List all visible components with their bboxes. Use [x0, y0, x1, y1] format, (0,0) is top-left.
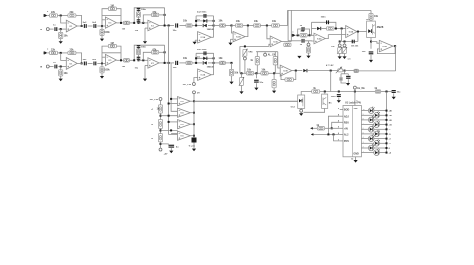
wire: [208, 62, 214, 64]
diode D1b: [203, 57, 207, 60]
wire: [159, 51, 165, 53]
wire LED6 to rail: [379, 133, 386, 135]
LED LD1: [368, 107, 374, 114]
svg-text:100k: 100k: [104, 69, 110, 72]
port Ex_Mo: [353, 86, 365, 90]
node ref2: [160, 129, 162, 131]
wire: [130, 22, 135, 24]
label LED9: [389, 148, 391, 150]
wire drv fb right: [357, 32, 359, 42]
svg-text:8: 8: [363, 118, 364, 120]
resistor R17: [273, 57, 277, 65]
resistor R1a: [50, 11, 58, 17]
node rect-r2a: [213, 20, 215, 22]
wire LED10 to rail: [379, 152, 386, 154]
wire: [256, 52, 258, 57]
svg-text:IC2B: IC2B: [236, 37, 241, 39]
wire bank rail: [193, 94, 195, 138]
ground bank: [192, 149, 196, 152]
resistor R33: [158, 134, 162, 142]
wire IC3A out: [282, 40, 292, 42]
resistor R8b (feedback): [152, 48, 159, 54]
capacitor C13: [321, 16, 329, 24]
wire: [47, 15, 49, 17]
wire: [208, 25, 214, 27]
node ref3: [160, 143, 162, 145]
wire: [339, 46, 341, 49]
wire feedback cornera: [76, 16, 82, 27]
wire: [344, 71, 346, 74]
wire rc split: [341, 73, 348, 75]
wire: [255, 83, 257, 87]
node vr4 top: [344, 41, 346, 43]
svg-text:10u: 10u: [362, 51, 366, 53]
wire st2 fb innerb: [102, 52, 121, 54]
node meter tapa: [168, 25, 170, 27]
op-amp IC6b: [178, 108, 191, 117]
resistor R7b: [136, 49, 140, 54]
wire pin to LED7: [361, 136, 368, 139]
wire IC2B minus: [232, 26, 234, 34]
wire st2 minus stubb: [102, 56, 105, 58]
wire aux rail b: [320, 91, 376, 93]
capacitor C7a (feedback): [197, 12, 207, 18]
diode D1a: [203, 19, 207, 22]
svg-text:4.7 1.8V: 4.7 1.8V: [326, 64, 334, 67]
node rail LED7: [386, 138, 388, 140]
wire trim1 stub: [244, 55, 246, 58]
wire lim fb top: [312, 22, 336, 28]
op-amp IC2Aa: [198, 32, 212, 43]
wire: [341, 81, 346, 83]
node T1 minus: [170, 98, 172, 100]
svg-text:IC5A: IC5A: [349, 31, 354, 34]
svg-text:2u2 100n: 2u2 100n: [197, 12, 207, 14]
node ExMo: [354, 91, 356, 93]
svg-text:10k: 10k: [247, 68, 252, 71]
wire buffer fb loop: [377, 46, 395, 54]
capacitor C19 (bank): [192, 138, 197, 143]
wire IC2B fb down: [245, 26, 248, 37]
trimmer VR3: [331, 46, 342, 54]
wire into stage2b: [97, 62, 105, 64]
svg-text:10k: 10k: [183, 57, 188, 60]
svg-text:10k 10k: 10k 10k: [351, 46, 359, 48]
op-amp IC1Ca: [148, 20, 159, 30]
resistor R14 (ch2 load): [229, 69, 238, 75]
LED LD6: [374, 130, 380, 137]
resistor R3a (to ground): [59, 32, 69, 38]
node rail LED1: [386, 110, 388, 112]
wire: [139, 22, 148, 24]
wire: [274, 65, 276, 73]
resistor R10a: [219, 20, 226, 28]
wire U1 gnd stub: [355, 157, 357, 160]
wire st3 fb lefta: [143, 15, 151, 23]
wire bank rail down: [193, 143, 195, 149]
wire: [256, 65, 258, 73]
svg-text:AL2: AL2: [344, 134, 349, 137]
op-amp IC1Bb: [105, 54, 116, 65]
pin label ADJ: [344, 115, 349, 118]
node rect-outa: [231, 25, 233, 27]
node bank out 2: [193, 112, 195, 114]
resistor R20: [272, 79, 276, 87]
trimmer VR4: [342, 47, 347, 54]
wire LED4 to rail: [379, 124, 386, 126]
wire cal left down: [239, 46, 241, 73]
resistor R6b: [124, 59, 130, 62]
node rect-l2b: [195, 57, 197, 59]
svg-text:1M: 1M: [110, 42, 113, 45]
wire: [354, 89, 356, 91]
LED LD4: [374, 121, 380, 128]
ground VR4: [342, 56, 346, 59]
node drive tap: [330, 70, 332, 72]
wire opto emitter down: [370, 38, 372, 42]
net arrow +IN: [310, 127, 312, 130]
node Q1 base: [324, 91, 326, 93]
wire: [196, 25, 202, 27]
wire: [255, 73, 257, 78]
wire ch1 into summing: [267, 26, 270, 39]
label LED5: [389, 129, 392, 131]
node st2-outa: [120, 22, 122, 24]
node rect-r2b: [213, 57, 215, 59]
wire: [274, 52, 276, 57]
wire lim lower in: [288, 40, 301, 42]
LED LD7: [368, 135, 374, 142]
capacitor C9: [339, 78, 342, 81]
wire T3 minus stub: [169, 121, 178, 123]
node st1-outa: [81, 25, 83, 27]
node LED supply: [386, 91, 388, 93]
ground ch2 tail: [229, 82, 233, 85]
label bank cap: [189, 145, 196, 147]
node st3-fba: [164, 14, 166, 16]
wire: [60, 29, 62, 32]
wire T4 minus stub: [171, 132, 177, 134]
label R31: [151, 109, 154, 111]
resistor R24: [300, 30, 307, 37]
node T3 cross: [170, 129, 172, 131]
wire st3 plus stubb: [145, 65, 148, 67]
capacitor C5b: [137, 57, 141, 60]
svg-text:2u2 100n: 2u2 100n: [197, 49, 207, 51]
wire: [340, 74, 342, 77]
wire pin to LED1: [361, 109, 368, 111]
svg-text:10k: 10k: [374, 15, 379, 18]
wire POV bracket: [334, 134, 340, 141]
wire: [192, 62, 196, 64]
wire law row: [256, 51, 278, 53]
wire st2 fb upb: [102, 46, 108, 63]
svg-text:10k: 10k: [64, 72, 69, 75]
wire chain a: [160, 101, 162, 105]
node st2-inb: [101, 62, 103, 64]
port AL_GN: [264, 53, 276, 56]
label VR4: [348, 58, 351, 61]
svg-text:100k: 100k: [104, 31, 110, 34]
wire hf railb: [134, 45, 164, 60]
wire pin to LED4: [361, 123, 373, 125]
resistor R9b: [183, 57, 192, 65]
node AL2 bracket: [333, 133, 335, 135]
port ref bottom: [159, 148, 162, 151]
node drive rc: [344, 70, 346, 72]
wire rect diode rowa: [196, 20, 214, 22]
node st1-ina: [60, 28, 62, 30]
node bank out 1: [193, 100, 195, 102]
svg-text:2: 2: [363, 147, 364, 149]
wire: [58, 28, 66, 30]
node sum-in-a: [266, 25, 268, 27]
wire: [260, 25, 271, 27]
wire drv fb left: [341, 29, 343, 42]
ground sens: [306, 56, 310, 59]
resistor R23: [354, 69, 358, 72]
svg-text:47k: 47k: [152, 48, 157, 51]
ground recta: [193, 42, 197, 45]
svg-text:5V: 5V: [197, 92, 200, 94]
wire Q1 emitter return: [304, 108, 325, 112]
wire: [101, 63, 103, 66]
label ref bottom: [164, 152, 168, 155]
node st2-outb: [120, 59, 122, 61]
diode D5: [303, 64, 334, 72]
port SENS: [307, 43, 310, 46]
label LED4: [389, 125, 393, 127]
svg-text:100n: 100n: [321, 16, 327, 18]
label R32: [151, 124, 154, 126]
node law mid: [255, 72, 257, 74]
label LED8: [389, 143, 392, 145]
wire st2 outa: [116, 22, 123, 24]
LED LD3: [368, 116, 374, 123]
ground st1b: [59, 79, 63, 82]
pin 8 stub ADJ: [338, 115, 343, 117]
wire into stage2a: [97, 25, 105, 27]
wire: [241, 86, 243, 92]
op-amp IC6d: [178, 131, 191, 140]
ground aux small: [297, 56, 301, 59]
node T3 minus: [168, 121, 170, 123]
svg-text:set: set: [348, 58, 351, 61]
wire T2 plus row: [161, 115, 178, 117]
wire IC2B plus stub: [231, 38, 234, 40]
wire: [60, 39, 62, 42]
port input jacka: [40, 28, 49, 31]
wire: [88, 62, 93, 64]
svg-text:BU_PW: BU_PW: [183, 84, 192, 86]
label C5b: [135, 68, 139, 70]
capacitor C2b: [83, 59, 88, 65]
pin 6 stub AL2: [338, 133, 343, 135]
label D1b: [197, 57, 200, 59]
wire: [101, 73, 103, 76]
wire st2 outb: [116, 59, 123, 61]
svg-text:10u: 10u: [397, 92, 401, 94]
svg-text:5: 5: [363, 132, 364, 134]
node rect-r3b: [213, 62, 215, 64]
wire T3 plus row: [161, 129, 178, 131]
svg-text:+4V: +4V: [164, 152, 168, 155]
wire law to op9 minus: [278, 52, 280, 68]
label R6b: [122, 66, 126, 68]
wire +IN b: [310, 127, 317, 129]
wire LED anode rail: [386, 92, 388, 153]
wire pin to LED2: [361, 114, 373, 116]
ground R20: [272, 91, 276, 94]
wire: [381, 91, 392, 93]
pin 3 label: [356, 101, 358, 103]
node stack-lb: [133, 59, 135, 61]
node T1 plus: [168, 103, 170, 105]
resistor R2b (feedback): [68, 49, 76, 55]
svg-text:10k: 10k: [219, 57, 224, 60]
wire: [179, 62, 186, 64]
svg-text:Tr_p0k: Tr_p0k: [189, 145, 196, 147]
node st3-fbb: [164, 51, 166, 53]
wire: [196, 62, 202, 64]
wire rail drop left: [287, 10, 289, 40]
wire: [77, 62, 83, 64]
wire +IN a: [325, 127, 340, 129]
svg-text:10k: 10k: [261, 68, 266, 71]
wire: [338, 98, 340, 101]
wire: [324, 92, 326, 95]
wire rect lefta: [195, 16, 197, 26]
wire: [344, 54, 346, 57]
wire ch2 tail down: [231, 63, 233, 70]
wire: [130, 59, 135, 61]
node trim1 top: [244, 45, 246, 47]
svg-text:IC4A: IC4A: [317, 37, 322, 40]
wire LED2 to rail: [379, 114, 386, 116]
ground IC2B: [228, 43, 232, 46]
port drive (net arrow): [292, 31, 296, 36]
wire lim fb up: [310, 22, 312, 35]
ground st3b: [143, 79, 147, 82]
wire: [50, 28, 54, 30]
wire pin to LED6: [361, 132, 373, 134]
capacitor C7b (feedback): [197, 49, 207, 55]
wire rect out stubb: [211, 74, 213, 76]
wire: [307, 34, 314, 36]
wire LED5 to rail: [374, 128, 387, 130]
wire lim plus: [305, 40, 314, 42]
node rect-l3a: [195, 25, 197, 27]
wire LED7 to rail: [374, 138, 387, 140]
wire: [179, 25, 186, 27]
wire st3 fb leftb: [143, 52, 151, 60]
op-amp IC1Ab: [66, 58, 77, 70]
label LED1: [389, 110, 393, 113]
diode D2b: [203, 61, 215, 68]
wire rect righta: [213, 16, 215, 37]
wire lim cap down: [305, 29, 310, 35]
wire: [77, 25, 83, 27]
svg-text:100n: 100n: [331, 96, 337, 98]
node st1-inb: [60, 66, 62, 68]
wire: [347, 79, 349, 83]
diode D2a: [203, 24, 215, 31]
resistor R29: [374, 87, 380, 93]
wire: [192, 25, 196, 27]
wire: [139, 59, 148, 61]
LED LD2: [374, 111, 380, 118]
wire bank to OC2 (long): [194, 100, 298, 102]
node lim minus: [309, 34, 311, 36]
wire stack brancha: [138, 8, 140, 23]
wire: [273, 88, 275, 91]
resistor R8a (feedback): [152, 11, 159, 17]
wire: [339, 42, 341, 44]
wire rect topb: [196, 52, 214, 54]
node st3-outa: [164, 25, 166, 27]
node rail LED5: [386, 128, 388, 130]
node peak: [370, 41, 372, 43]
capacitor C1b: [53, 62, 57, 68]
op-amp IC2Ab: [198, 69, 212, 80]
wire rect leftb: [195, 53, 197, 63]
svg-text:U1 Ladder PN: U1 Ladder PN: [345, 101, 361, 104]
wire chain d: [160, 142, 162, 148]
wire st3 fb downb: [164, 45, 166, 63]
port INa (net arrow): [44, 11, 49, 17]
wire opto R top: [370, 10, 372, 13]
wire drv out: [357, 31, 367, 33]
node stack-ra: [138, 22, 140, 24]
wire rect topa: [196, 15, 214, 17]
wire: [241, 73, 243, 77]
svg-text:22k: 22k: [70, 49, 75, 52]
wire st3 fb downa: [164, 8, 166, 26]
wire bank T1 out long: [194, 100, 298, 102]
node st3-minusb: [142, 59, 144, 61]
wire aux rail a: [301, 92, 312, 96]
op-amp IC1Cb: [148, 58, 159, 68]
resistor R25 (feedback): [327, 27, 335, 30]
op-amp IC3B: [280, 65, 292, 76]
svg-text:IC5B: IC5B: [382, 46, 387, 48]
svg-text:4N28: 4N28: [377, 25, 384, 29]
wire ADJ down: [328, 116, 339, 134]
node drv minus: [341, 28, 343, 30]
node st3-minusa: [142, 22, 144, 24]
resistor R13: [272, 20, 280, 27]
resistor R5a (feedback): [108, 4, 116, 10]
wire RSU jumper: [332, 122, 340, 128]
node rect-r3a: [213, 25, 215, 27]
wire AL2 row: [311, 133, 340, 135]
wire: [144, 28, 146, 41]
node RSU-IN: [331, 127, 333, 129]
capacitor C6a: [173, 23, 179, 31]
wire hf raila: [134, 8, 164, 23]
op-amp IC3A: [270, 36, 281, 47]
svg-text:GND: GND: [353, 153, 359, 156]
node rail LED10: [386, 152, 388, 154]
label drv parts: [351, 46, 359, 48]
wire out up to rail: [290, 10, 292, 41]
wire: [230, 39, 232, 42]
wire: [60, 67, 62, 70]
pin 4 stub RSU: [338, 120, 343, 123]
wire st3 outa: [159, 25, 174, 27]
resistor R15 (feedback): [284, 43, 291, 46]
ground U1: [354, 160, 358, 163]
